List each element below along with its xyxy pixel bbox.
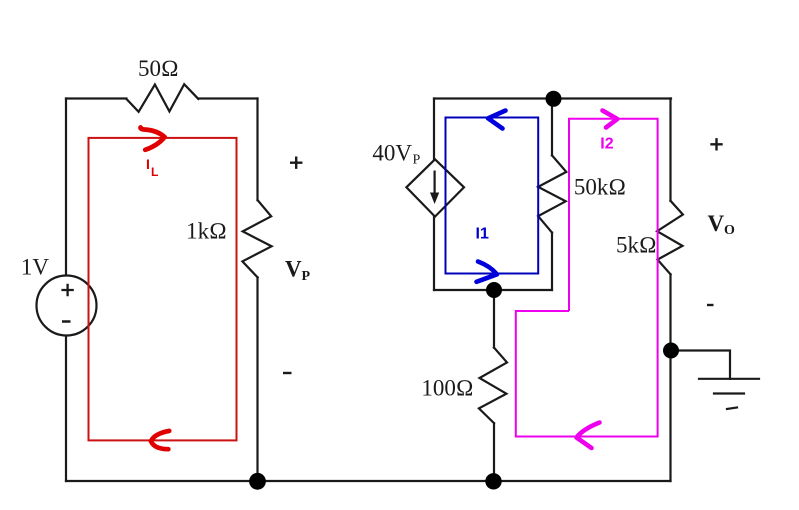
node dot bottom-right <box>485 473 501 489</box>
svg-text:1V: 1V <box>21 255 50 280</box>
wire left vertical upper <box>65 99 67 277</box>
ground <box>699 378 759 380</box>
arrow I1 bottom <box>477 262 498 282</box>
wire dep-source branch upper <box>433 99 435 160</box>
wire 50k branch upper <box>551 99 553 156</box>
polarity minus Vo <box>707 304 714 306</box>
wire 50k branch lower <box>551 233 553 290</box>
mesh loop I2 <box>516 119 658 437</box>
svg-text:5kΩ: 5kΩ <box>616 233 657 258</box>
wire left vertical lower <box>65 335 67 481</box>
wire top-left B <box>198 97 257 99</box>
resistor R 50ohm <box>126 84 198 112</box>
svg-text:P: P <box>302 269 311 284</box>
resistor R 50kohm <box>538 155 566 232</box>
arrow IL top <box>141 127 165 149</box>
svg-text:40V: 40V <box>372 140 412 165</box>
svg-text:50Ω: 50Ω <box>138 56 179 81</box>
arrow I2 bottom <box>577 423 600 449</box>
node dot bottom-left <box>249 473 266 490</box>
wire top-right <box>434 97 671 99</box>
wire right vertical upper <box>669 99 671 201</box>
polarity minus Vp <box>283 372 292 374</box>
svg-text:V: V <box>285 256 302 281</box>
voltage source V1 1V <box>37 276 97 336</box>
svg-text:50kΩ: 50kΩ <box>574 175 626 200</box>
wire box bottom <box>434 289 552 291</box>
wire ground stub <box>671 351 730 379</box>
wire right vertical lower <box>669 274 671 481</box>
polarity plus Vp <box>290 157 302 169</box>
node dot ground <box>663 343 679 359</box>
arrow I1 top <box>488 111 506 129</box>
arrow IL bottom <box>151 431 169 449</box>
wire top-left A <box>66 97 126 99</box>
node dot top <box>546 91 562 107</box>
wire 1k branch lower <box>256 278 258 482</box>
svg-text:I: I <box>146 156 150 172</box>
svg-text:O: O <box>724 223 735 238</box>
svg-text:L: L <box>151 165 158 179</box>
svg-text:I1: I1 <box>476 226 489 243</box>
svg-text:100Ω: 100Ω <box>421 375 473 400</box>
svg-text:V: V <box>708 211 725 236</box>
node dot mid <box>486 282 502 298</box>
wire dep-source branch lower <box>433 217 435 290</box>
svg-text:P: P <box>413 153 421 168</box>
mesh loop I1 <box>446 118 539 274</box>
arrow I2 top <box>603 111 618 128</box>
wire 100ohm branch lower <box>493 423 495 481</box>
resistor R 1kohm <box>242 200 271 277</box>
svg-text:I2: I2 <box>600 136 613 153</box>
resistor R 100ohm <box>479 348 507 424</box>
resistor R 5kohm <box>657 201 683 274</box>
wire bottom <box>66 480 671 482</box>
wire 100ohm branch upper <box>493 290 495 348</box>
mesh loop IL <box>89 138 237 441</box>
svg-text:1kΩ: 1kΩ <box>186 219 227 244</box>
polarity plus Vo <box>710 138 722 150</box>
dependent source 40Vp <box>406 159 464 216</box>
wire 1k branch upper <box>256 99 258 201</box>
